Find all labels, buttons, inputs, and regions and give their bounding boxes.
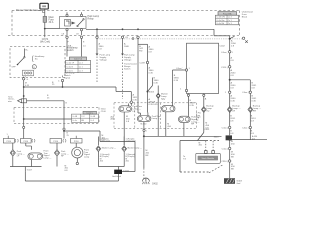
svg-text:Voltage: Voltage xyxy=(124,58,132,61)
svg-text:Cx 3: Cx 3 xyxy=(79,71,83,73)
svg-text:C910 (: C910 ( xyxy=(221,161,228,163)
svg-text:Alrm: Alrm xyxy=(111,118,115,121)
svg-text:Voltage: Voltage xyxy=(100,58,108,61)
svg-text:Gnd: Gnd xyxy=(237,183,241,185)
svg-text:Lamp —: Lamp — xyxy=(152,118,161,120)
svg-text:Cx 4: Cx 4 xyxy=(228,17,232,19)
svg-text:Relay: Relay xyxy=(88,17,95,20)
svg-text:S303: S303 xyxy=(149,92,155,94)
svg-text:RD: RD xyxy=(139,51,143,53)
svg-text:1 (Discrete): 1 (Discrete) xyxy=(126,140,137,143)
svg-text:1 (Discrete): 1 (Discrete) xyxy=(100,140,111,143)
svg-text:Cx 4: Cx 4 xyxy=(79,62,83,64)
svg-text:C402: C402 xyxy=(220,46,226,48)
svg-text:S440: S440 xyxy=(214,136,220,138)
svg-text:G402: G402 xyxy=(152,184,158,186)
svg-text:Cx 4x Bm: Cx 4x Bm xyxy=(216,20,225,22)
svg-text:Cx 3: Cx 3 xyxy=(228,23,232,25)
svg-text:C4xx (: C4xx ( xyxy=(242,92,249,94)
svg-text:Cx 4B: Cx 4B xyxy=(90,116,96,118)
svg-text:Cx 4B 1Fk: Cx 4B 1Fk xyxy=(216,17,225,19)
svg-text:Switch: Switch xyxy=(67,49,75,52)
svg-text:Power Distribution: Power Distribution xyxy=(16,8,38,12)
svg-text:Cx 4x: Cx 4x xyxy=(72,120,77,122)
svg-text:Cx 4x D: Cx 4x D xyxy=(66,71,73,73)
svg-text:Gnd block: Gnd block xyxy=(112,176,121,178)
svg-text:Cx 3: Cx 3 xyxy=(90,120,94,122)
svg-text:C209: C209 xyxy=(140,62,146,64)
svg-text:Switch: Switch xyxy=(124,67,131,70)
svg-text:G117: G117 xyxy=(27,169,33,171)
svg-text:C4xx (: C4xx ( xyxy=(222,127,229,129)
svg-text:M 450: M 450 xyxy=(141,124,148,126)
svg-text:Trlr: Trlr xyxy=(183,157,186,160)
svg-text:C4xx (: C4xx ( xyxy=(242,127,249,129)
svg-text:Signal: Signal xyxy=(64,77,71,79)
svg-text:Cx 1: Cx 1 xyxy=(228,20,232,22)
svg-text:LR: LR xyxy=(232,110,235,112)
svg-text:30 A: 30 A xyxy=(49,21,54,24)
svg-text:Stack Module: Stack Module xyxy=(202,157,215,160)
svg-text:Sw: Sw xyxy=(35,58,38,60)
svg-text:(Mv Crnk): (Mv Crnk) xyxy=(40,41,50,44)
svg-text:Lamp —: Lamp — xyxy=(44,157,53,159)
svg-text:Lamp: Lamp xyxy=(84,156,90,158)
svg-text:Sw: Sw xyxy=(206,110,209,112)
svg-text:C100: C100 xyxy=(101,111,107,113)
svg-text:C4xx (: C4xx ( xyxy=(221,52,228,54)
svg-text:OFF: OFF xyxy=(12,67,17,69)
svg-text:Cx 40 1F: Cx 40 1F xyxy=(66,62,75,64)
svg-text:1840: 1840 xyxy=(124,46,130,48)
svg-text:G103: G103 xyxy=(123,171,129,173)
svg-text:Cx 4x Bd: Cx 4x Bd xyxy=(216,23,224,25)
svg-text:Marker Lamp —: Marker Lamp — xyxy=(128,148,142,150)
svg-text:Marker Lamp —: Marker Lamp — xyxy=(102,148,116,150)
svg-text:C310 (: C310 ( xyxy=(221,67,228,69)
svg-text:ator: ator xyxy=(8,100,12,103)
svg-text:RR: RR xyxy=(253,110,257,112)
svg-text:G: G xyxy=(27,79,29,81)
svg-text:C4xx (: C4xx ( xyxy=(222,148,229,150)
svg-text:Block: Block xyxy=(242,16,248,18)
svg-text:Cx 4x B: Cx 4x B xyxy=(66,66,73,68)
svg-text:Cx 1: Cx 1 xyxy=(79,66,83,68)
svg-text:Cx 4B: Cx 4B xyxy=(72,116,78,118)
